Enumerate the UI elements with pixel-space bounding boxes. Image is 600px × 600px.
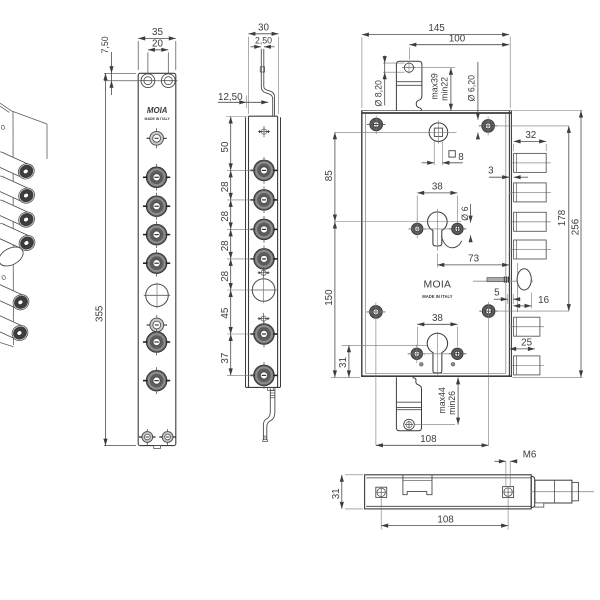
knurled boss B4	[143, 250, 170, 277]
svg-text:38: 38	[432, 313, 443, 324]
side boss S5	[250, 321, 277, 348]
bottom bracket lines	[396, 401, 421, 403]
cam lobe	[441, 236, 461, 247]
night bolt 1	[509, 317, 544, 336]
svg-text:Ø 6: Ø 6	[460, 206, 470, 220]
extension lines 30	[247, 37, 249, 114]
bottom bracket screw	[404, 419, 455, 430]
dim max44 min26	[437, 377, 460, 424]
svg-text:30: 30	[258, 22, 269, 33]
dim 5	[494, 287, 520, 304]
svg-text:31: 31	[338, 357, 349, 368]
svg-text:2,50: 2,50	[255, 35, 272, 45]
dim square 8	[422, 142, 465, 166]
svg-text:8: 8	[458, 152, 464, 163]
svg-text:35: 35	[152, 27, 163, 38]
svg-text:min26: min26	[447, 391, 457, 415]
svg-text:355: 355	[95, 305, 106, 322]
dim 12,50	[218, 92, 268, 108]
svg-text:MADE IN ITALY: MADE IN ITALY	[422, 294, 452, 299]
svg-text:M6: M6	[523, 450, 537, 461]
3d big hole ellipse	[0, 243, 26, 270]
latch pin	[473, 263, 533, 312]
svg-text:25: 25	[521, 338, 532, 349]
svg-text:Ø 8,20: Ø 8,20	[373, 80, 383, 107]
bottom bracket	[396, 377, 421, 430]
svg-text:28: 28	[220, 210, 231, 221]
svg-text:16: 16	[538, 295, 549, 306]
screw bottom left	[139, 429, 156, 445]
top bracket	[396, 61, 422, 110]
dim 2,50	[251, 35, 275, 49]
knurled boss B2	[143, 193, 170, 220]
dim 108 bottom	[381, 498, 508, 530]
svg-text:178: 178	[557, 209, 568, 226]
cylinder screw right	[449, 223, 466, 235]
top bracket screw hole	[402, 62, 417, 74]
bottom view slide tab	[403, 475, 432, 495]
dim 100	[409, 33, 509, 59]
3d cylinder 1	[0, 149, 37, 182]
svg-text:31: 31	[331, 488, 342, 499]
svg-text:28: 28	[220, 181, 231, 192]
dim 38 bottom	[417, 313, 457, 347]
screw bottom-left	[367, 303, 386, 446]
side dim chain line	[230, 117, 232, 376]
night bolt 2	[509, 356, 544, 375]
case outline	[361, 111, 511, 377]
dim 178	[557, 126, 571, 311]
svg-text:MADE IN ITALY: MADE IN ITALY	[145, 117, 171, 121]
bolt pin 2	[509, 183, 551, 202]
dim 20	[148, 39, 168, 74]
side chain arrows	[229, 117, 233, 376]
bolt pin 1	[509, 153, 551, 172]
dim 31 bottom	[331, 475, 363, 509]
faceplate bottom tab	[154, 446, 161, 449]
side boss S2	[250, 187, 277, 214]
svg-text:MOIA: MOIA	[147, 106, 168, 115]
knurled boss B1	[143, 164, 170, 191]
dim 73	[437, 254, 509, 268]
cylinder screw bottom-left	[408, 345, 467, 363]
dim 32	[514, 130, 547, 151]
dim diameter 6	[460, 204, 473, 242]
side boss S4	[250, 246, 277, 273]
side body outline	[246, 116, 281, 387]
screw bottom right	[159, 429, 176, 445]
side boss S1	[250, 157, 277, 184]
control rod top	[260, 49, 274, 116]
dim 150	[324, 222, 360, 378]
svg-text:32: 32	[525, 130, 536, 141]
screw top left	[141, 74, 155, 88]
bolt pin 4	[509, 240, 551, 259]
bottom view screw left	[376, 487, 387, 497]
3d cylinder 5	[0, 280, 32, 313]
dim 38 top	[417, 182, 457, 223]
dim 108 main	[376, 434, 489, 447]
svg-text:5: 5	[494, 287, 500, 298]
bottom rod	[263, 400, 275, 441]
dim 256	[513, 111, 584, 378]
svg-text:Ø 6,20: Ø 6,20	[467, 75, 477, 102]
dim 355	[95, 73, 136, 445]
screw bottom-right	[479, 302, 568, 446]
euro cylinder bottom	[427, 332, 447, 377]
side large hole	[250, 277, 276, 303]
svg-text:20: 20	[152, 39, 163, 50]
3d cylinder 4	[0, 221, 38, 254]
3d top corner edges	[0, 103, 47, 345]
3d cylinder 3	[0, 197, 37, 230]
svg-text:MOIA: MOIA	[424, 280, 452, 291]
dim diameter 6,20	[467, 62, 481, 140]
cross mark mid2	[258, 313, 270, 324]
svg-text:38: 38	[432, 182, 443, 193]
dim 25	[509, 338, 535, 352]
svg-text:28: 28	[220, 240, 231, 251]
dim 3	[488, 165, 528, 179]
dim M6	[495, 450, 537, 488]
small boss C	[147, 315, 167, 335]
svg-text:256: 256	[570, 218, 581, 235]
euro cylinder top	[335, 209, 461, 251]
cross mark top	[258, 126, 270, 137]
screw slot line top	[104, 80, 178, 82]
bottom threaded stem	[267, 387, 275, 400]
protruding bolt bottom view	[531, 480, 594, 507]
side dim chain extension lines	[226, 117, 254, 376]
svg-text:max44: max44	[437, 387, 447, 414]
svg-text:3: 3	[488, 165, 494, 176]
svg-text:7,50: 7,50	[100, 36, 110, 53]
svg-text:150: 150	[324, 289, 335, 306]
small boss A	[146, 128, 166, 148]
side boss S6	[250, 362, 277, 389]
dim max39 min22	[417, 68, 455, 111]
svg-text:min22: min22	[440, 77, 450, 101]
spindle hub	[335, 120, 457, 143]
svg-text:145: 145	[428, 23, 445, 34]
knurled boss B3	[143, 221, 170, 248]
side boss S3	[250, 216, 277, 243]
bolt pin 3	[509, 212, 551, 231]
rivet dots	[419, 362, 423, 366]
cylinder screw bottom-right	[449, 348, 466, 360]
bottom view faceplate edge	[531, 476, 535, 507]
3d cylinder 6	[0, 311, 31, 344]
knurled boss B6	[143, 367, 170, 394]
dim 31 main	[338, 345, 434, 377]
3d cylinder 2	[0, 173, 37, 206]
3d panel holes	[1, 125, 5, 130]
3d bottom edge	[0, 343, 13, 347]
svg-text:108: 108	[437, 514, 454, 525]
svg-text:50: 50	[220, 141, 231, 152]
svg-text:45: 45	[220, 307, 231, 318]
dim 145	[362, 23, 510, 108]
bottom view screw right M6	[503, 487, 514, 498]
latch oval	[517, 269, 531, 290]
dim 30	[248, 22, 278, 35]
faceplate outline	[138, 73, 176, 445]
dim 16	[513, 293, 549, 309]
svg-text:85: 85	[324, 170, 335, 181]
screw top-right	[479, 117, 569, 136]
dim 35	[138, 27, 176, 70]
bottom view body	[365, 475, 532, 509]
cross mark mid1	[258, 267, 270, 278]
cylinder screw left	[409, 220, 467, 239]
large hole circle	[144, 283, 170, 309]
dim diameter 8,20	[373, 56, 404, 107]
svg-text:37: 37	[220, 353, 231, 364]
svg-text:73: 73	[468, 254, 479, 265]
knurled boss B5	[143, 329, 170, 356]
svg-text:108: 108	[420, 434, 437, 445]
dim 7,50	[100, 36, 136, 95]
screw top right	[161, 74, 175, 88]
svg-text:max39: max39	[429, 73, 439, 100]
svg-text:28: 28	[220, 270, 231, 281]
screw top-left	[367, 116, 386, 135]
dim 85	[324, 132, 337, 221]
top bracket lines	[396, 81, 422, 83]
svg-text:100: 100	[449, 33, 466, 44]
